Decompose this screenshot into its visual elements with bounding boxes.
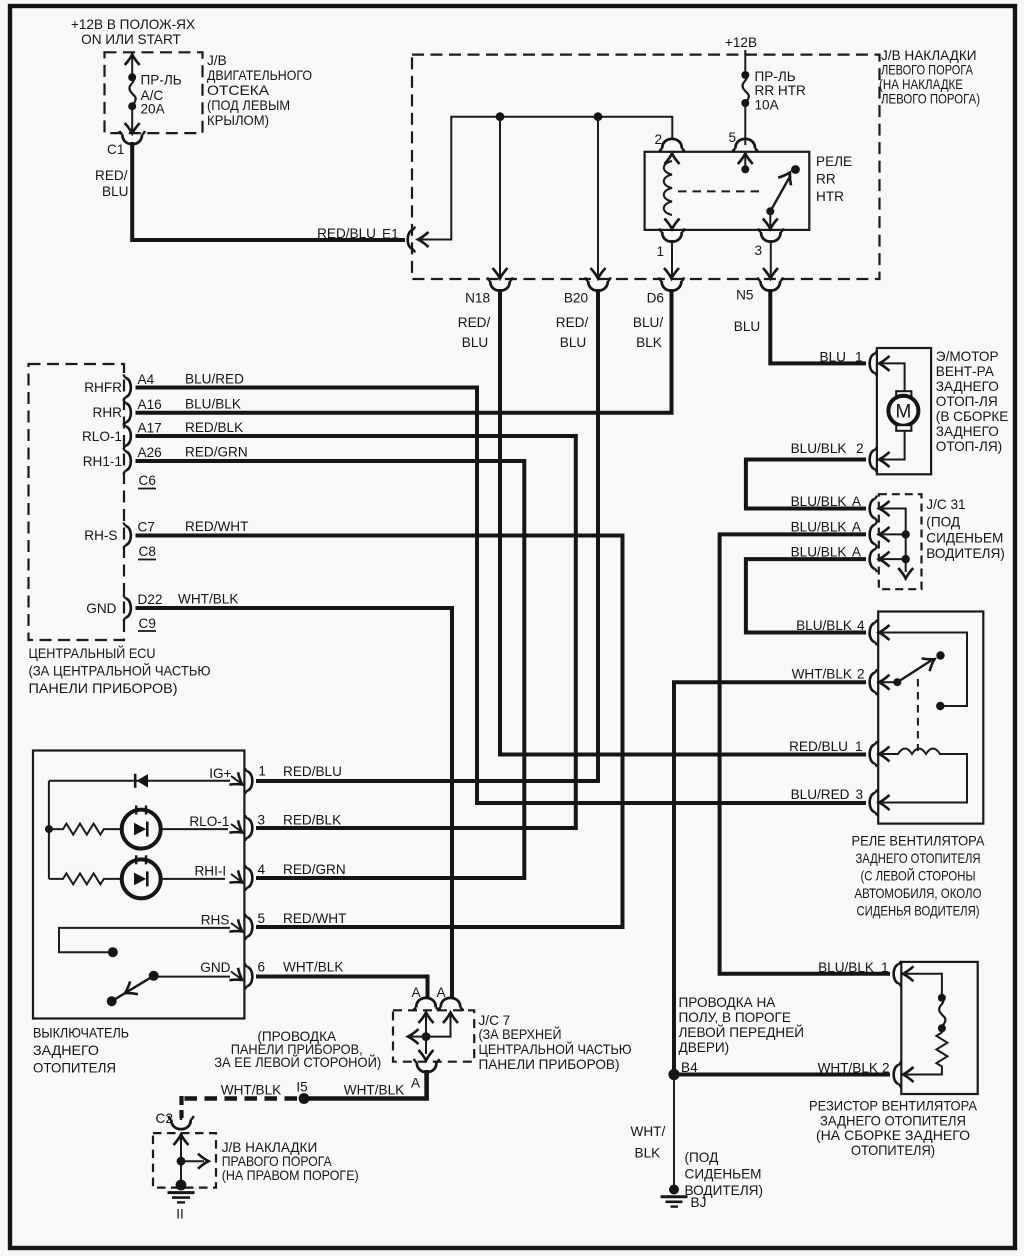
switch pin 5 connector xyxy=(245,911,265,940)
svg-text:(ЗА ВЕРХНЕЙ: (ЗА ВЕРХНЕЙ xyxy=(479,1027,562,1042)
bulb RLO-1 xyxy=(122,806,228,849)
dashed wire I5 to C2 xyxy=(182,1096,298,1118)
svg-text:(НА ПРАВОМ ПОРОГЕ): (НА ПРАВОМ ПОРОГЕ) xyxy=(222,1168,359,1183)
svg-text:ON ИЛИ START: ON ИЛИ START xyxy=(81,32,181,47)
fan relay coil xyxy=(880,749,967,803)
svg-text:RHI-I: RHI-I xyxy=(194,864,226,879)
resistor element xyxy=(904,974,947,1075)
wire +12V to fuse xyxy=(744,50,746,75)
svg-text:WHT/BLK: WHT/BLK xyxy=(283,960,343,975)
svg-text:+12В: +12В xyxy=(725,35,757,50)
svg-text:(НА СБОРКЕ ЗАДНЕГО: (НА СБОРКЕ ЗАДНЕГО xyxy=(816,1128,970,1143)
relay switch common from pin 5 xyxy=(738,154,753,174)
fuse PR-L A/C 20A xyxy=(128,73,182,117)
svg-text:2: 2 xyxy=(654,132,662,147)
svg-text:(НА НАКЛАДКЕ: (НА НАКЛАДКЕ xyxy=(879,77,963,92)
svg-text:ЛЕВОЙ ПЕРЕДНЕЙ: ЛЕВОЙ ПЕРЕДНЕЙ xyxy=(679,1025,805,1040)
svg-text:ПАНЕЛИ ПРИБОРОВ): ПАНЕЛИ ПРИБОРОВ) xyxy=(29,681,178,696)
rear heater fan resistor box xyxy=(901,962,977,1094)
pin RLO-1 A17 xyxy=(82,421,162,450)
svg-text:J/C 31: J/C 31 xyxy=(926,497,965,512)
fan relay pin 3 connector xyxy=(791,787,890,816)
svg-text:4: 4 xyxy=(258,862,266,877)
svg-text:BJ: BJ xyxy=(691,1195,707,1210)
svg-text:J/B: J/B xyxy=(207,53,227,68)
fan relay switch contact from pin 4 xyxy=(880,633,967,711)
switch pin GND label and arrow xyxy=(200,960,246,986)
svg-text:4: 4 xyxy=(857,618,865,633)
svg-text:WHT/BLK: WHT/BLK xyxy=(818,1061,878,1076)
central ECU label xyxy=(29,646,211,696)
svg-text:RLO-1: RLO-1 xyxy=(82,429,122,444)
relay coil xyxy=(664,154,680,230)
relay switch blade xyxy=(763,165,800,229)
svg-text:A: A xyxy=(436,985,446,1000)
resistor pin 2 connector xyxy=(818,1061,914,1088)
svg-text:ПР-ЛЬ: ПР-ЛЬ xyxy=(755,69,796,84)
svg-text:3: 3 xyxy=(856,787,864,802)
svg-text:I5: I5 xyxy=(296,1080,307,1095)
svg-text:ОТОП-ЛЯ: ОТОП-ЛЯ xyxy=(936,394,998,409)
svg-text:ДВЕРИ): ДВЕРИ) xyxy=(679,1040,730,1055)
svg-text:(С ЛЕВОЙ СТОРОНЫ: (С ЛЕВОЙ СТОРОНЫ xyxy=(861,869,976,884)
svg-text:СИДЕНЬЯ ВОДИТЕЛЯ): СИДЕНЬЯ ВОДИТЕЛЯ) xyxy=(857,904,980,919)
svg-text:(ЗА ЦЕНТРАЛЬНОЙ ЧАСТЬЮ: (ЗА ЦЕНТРАЛЬНОЙ ЧАСТЬЮ xyxy=(29,664,211,679)
svg-text:RED/BLK: RED/BLK xyxy=(283,813,341,828)
wire N18 RED/BLU to fan relay pin 1 xyxy=(500,289,866,755)
svg-text:ЗАДНЕГО: ЗАДНЕГО xyxy=(936,424,999,439)
svg-text:WHT/BLK: WHT/BLK xyxy=(221,1083,281,1098)
svg-text:BLU/RED: BLU/RED xyxy=(185,372,244,387)
svg-text:RED/BLU: RED/BLU xyxy=(317,226,376,241)
J/C 31 dashed box xyxy=(879,494,922,589)
svg-text:WHT/BLK: WHT/BLK xyxy=(344,1083,404,1098)
pin RHR A16 xyxy=(93,397,162,426)
svg-text:ЛЕВОГО ПОРОГА): ЛЕВОГО ПОРОГА) xyxy=(881,92,980,107)
svg-text:GND: GND xyxy=(200,960,230,975)
svg-text:1: 1 xyxy=(855,350,863,365)
svg-text:2: 2 xyxy=(856,441,864,456)
svg-text:ОТОПИТЕЛЯ: ОТОПИТЕЛЯ xyxy=(33,1061,116,1076)
switch pin 6 connector xyxy=(245,960,265,990)
switch pin IG+ label and arrow xyxy=(209,766,246,791)
svg-text:ОТОП-ЛЯ): ОТОП-ЛЯ) xyxy=(936,439,1002,454)
svg-text:RED/BLU: RED/BLU xyxy=(283,764,342,779)
svg-text:A: A xyxy=(852,494,862,509)
svg-text:ВЕНТ-РА: ВЕНТ-РА xyxy=(936,364,995,379)
svg-text:BLU: BLU xyxy=(102,184,128,199)
ground II xyxy=(168,1193,195,1222)
junction dot B20 branch xyxy=(594,112,603,121)
fan relay switch blade xyxy=(880,651,945,686)
wire A4 BLU/RED to fan relay pin 3 xyxy=(136,388,867,804)
svg-text:5: 5 xyxy=(728,130,736,145)
svg-text:C7: C7 xyxy=(138,520,155,535)
J/C7 right top connector xyxy=(438,998,463,1011)
wire J/C7 to I5 xyxy=(309,1070,427,1099)
svg-text:RH-S: RH-S xyxy=(84,528,117,543)
node A labels at J/C7 top xyxy=(411,985,446,1000)
resistor label xyxy=(809,1099,978,1159)
wire E1 to internal bus xyxy=(419,117,672,240)
svg-text:C9: C9 xyxy=(139,616,156,631)
svg-text:ЦЕНТРАЛЬНОЙ ЧАСТЬЮ: ЦЕНТРАЛЬНОЙ ЧАСТЬЮ xyxy=(479,1042,632,1057)
svg-text:D22: D22 xyxy=(138,592,163,607)
motor pin 2 connector xyxy=(791,441,890,473)
svg-text:RED/: RED/ xyxy=(556,315,589,330)
switch pin RLO-1 label and arrow xyxy=(189,814,246,839)
relay RR HTR label xyxy=(816,154,852,204)
svg-text:M: M xyxy=(895,402,911,423)
connector N18 xyxy=(487,277,512,290)
svg-text:1: 1 xyxy=(881,960,889,975)
svg-text:РЕЛЕ ВЕНТИЛЯТОРА: РЕЛЕ ВЕНТИЛЯТОРА xyxy=(852,834,986,849)
svg-text:HTR: HTR xyxy=(816,189,844,204)
svg-text:ПАНЕЛИ ПРИБОРОВ): ПАНЕЛИ ПРИБОРОВ) xyxy=(479,1057,620,1072)
svg-text:ЛЕВОГО ПОРОГА: ЛЕВОГО ПОРОГА xyxy=(881,63,974,78)
pin 3 connector xyxy=(758,228,783,241)
relay RR HTR box xyxy=(645,152,810,230)
pin GND D22 xyxy=(86,592,162,621)
wire label N18 RED/BLU xyxy=(458,315,491,350)
switch pin 1 connector xyxy=(245,764,266,795)
svg-text:J/B НАКЛАДКИ: J/B НАКЛАДКИ xyxy=(881,48,977,63)
svg-text:RED/: RED/ xyxy=(458,315,491,330)
svg-text:ПОЛУ, В ПОРОГЕ: ПОЛУ, В ПОРОГЕ xyxy=(679,1010,791,1025)
switch blade GND row xyxy=(107,971,230,1006)
svg-text:A: A xyxy=(411,985,421,1000)
svg-text:RHFR: RHFR xyxy=(84,380,122,395)
svg-text:BLU/BLK: BLU/BLK xyxy=(818,960,874,975)
switch pin RHI-I label and arrow xyxy=(194,864,246,889)
wire fan relay pin 2 WHT/BLK to B4 xyxy=(674,682,866,1074)
svg-text:ЗАДНЕГО ОТОПИТЕЛЯ: ЗАДНЕГО ОТОПИТЕЛЯ xyxy=(820,1114,966,1129)
svg-text:10А: 10А xyxy=(755,98,780,113)
svg-text:ЗАДНЕГО: ЗАДНЕГО xyxy=(33,1043,99,1058)
motor label xyxy=(936,349,1009,454)
svg-text:RHR: RHR xyxy=(93,405,123,420)
svg-text:C6: C6 xyxy=(139,473,156,488)
connector E1 cup xyxy=(408,227,415,253)
wire switch GND WHT/BLK to J/C7 xyxy=(256,977,428,999)
wire D22 WHT/BLK to J/C7 xyxy=(136,608,453,998)
J/C31 pin A middle connector xyxy=(791,520,890,548)
svg-text:(ПОД ЛЕВЫМ: (ПОД ЛЕВЫМ xyxy=(207,98,290,113)
wire B20 RED/BLU to heater switch pin 1 xyxy=(256,289,598,781)
J/C7 internal junction xyxy=(408,1013,458,1061)
fuse PR-L RR HTR 10A xyxy=(741,69,806,113)
wire J/C31 bottom BLU/BLK to fan relay pin 4 xyxy=(746,559,866,632)
svg-text:BLU/BLK: BLU/BLK xyxy=(185,397,241,412)
svg-text:WHT/BLK: WHT/BLK xyxy=(792,667,852,682)
svg-text:(ПОД: (ПОД xyxy=(926,515,960,530)
wire A17 RED/BLK to heater switch pin 3 xyxy=(136,436,576,828)
wire label B20 RED/BLU xyxy=(556,315,589,350)
svg-text:+12В В ПОЛОЖ-ЯХ: +12В В ПОЛОЖ-ЯХ xyxy=(71,17,195,32)
svg-text:6: 6 xyxy=(258,960,266,975)
svg-text:BLU/BLK: BLU/BLK xyxy=(791,441,847,456)
node +12V ON/START label xyxy=(71,17,195,47)
J/B right sill label xyxy=(222,1140,359,1183)
J/B engine compartment label xyxy=(207,53,312,128)
resistor on RHI-I row xyxy=(49,873,122,884)
wire fuse to C1 arrow xyxy=(131,106,133,133)
motor M symbol xyxy=(880,363,918,459)
spare pin C8 xyxy=(138,544,156,560)
svg-text:ЗАДНЕГО: ЗАДНЕГО xyxy=(936,379,999,394)
svg-text:BLU: BLU xyxy=(560,335,586,350)
wire motor pin 2 BLU/BLK to J/C31 xyxy=(746,460,866,509)
rear heater switch label xyxy=(33,1026,129,1076)
svg-text:WHT/: WHT/ xyxy=(631,1124,666,1139)
J/C 7 dashed box xyxy=(393,1010,474,1061)
svg-text:E1: E1 xyxy=(382,227,399,242)
svg-text:BLU/BLK: BLU/BLK xyxy=(796,618,852,633)
resistor on RLO-1 row xyxy=(49,824,122,835)
wire RED/BLU C1 to E1 xyxy=(132,142,405,240)
svg-text:C8: C8 xyxy=(139,544,156,559)
svg-text:ПРАВОГО ПОРОГА: ПРАВОГО ПОРОГА xyxy=(222,1154,333,1169)
wire label D6 BLU/BLK xyxy=(633,315,663,350)
svg-text:A: A xyxy=(411,1076,421,1091)
connector B20 xyxy=(585,277,610,290)
svg-text:RED/: RED/ xyxy=(95,168,128,183)
switch internal left bus xyxy=(45,781,53,879)
svg-text:(В СБОРКЕ: (В СБОРКЕ xyxy=(936,409,1009,424)
connector D6 xyxy=(659,277,684,290)
switch wiper RHS row xyxy=(59,928,230,957)
wire A26 RED/GRN to heater switch pin 4 xyxy=(136,461,525,878)
pin 1 connector xyxy=(659,228,684,241)
svg-text:РЕЛЕ: РЕЛЕ xyxy=(816,154,852,169)
svg-text:2: 2 xyxy=(882,1061,890,1076)
svg-text:RR HTR: RR HTR xyxy=(755,83,807,98)
svg-text:5: 5 xyxy=(258,911,266,926)
spare pin C9 xyxy=(138,616,156,631)
junction B4 xyxy=(668,1060,698,1080)
svg-text:B20: B20 xyxy=(564,291,589,306)
svg-text:АВТОМОБИЛЯ, ОКОЛО: АВТОМОБИЛЯ, ОКОЛО xyxy=(855,886,982,901)
J/C31 internal bus xyxy=(880,509,913,579)
svg-text:ЗАДНЕГО ОТОПИТЕЛЯ: ЗАДНЕГО ОТОПИТЕЛЯ xyxy=(856,851,981,866)
svg-text:A16: A16 xyxy=(138,397,162,412)
junction dot N18 branch xyxy=(496,112,505,121)
svg-text:RED/WHT: RED/WHT xyxy=(185,519,248,534)
svg-text:BLU: BLU xyxy=(462,335,488,350)
wire N5 BLU to motor pin 1 xyxy=(770,289,866,363)
svg-text:ПРОВОДКА НА: ПРОВОДКА НА xyxy=(679,995,777,1010)
pin RHFR A4 xyxy=(84,372,154,401)
junction I5 xyxy=(296,1080,309,1104)
wire pin 3 to N5 xyxy=(770,240,772,277)
svg-text:A4: A4 xyxy=(138,372,155,387)
svg-text:RED/GRN: RED/GRN xyxy=(185,445,248,460)
floor wiring note xyxy=(679,995,805,1055)
svg-text:A: A xyxy=(852,520,862,535)
pin 2 connector xyxy=(659,139,684,152)
J/C31 pin A top connector xyxy=(791,494,890,522)
svg-text:2: 2 xyxy=(857,667,865,682)
svg-text:II: II xyxy=(176,1207,184,1222)
wire B4 to resistor pin 2 xyxy=(674,1073,890,1077)
svg-text:BLK: BLK xyxy=(636,335,662,350)
svg-text:BLU/BLK: BLU/BLK xyxy=(791,520,847,535)
connector C2 xyxy=(156,1111,194,1129)
wire from +12V into fuse xyxy=(131,55,133,77)
diode on IG+ row xyxy=(49,774,230,788)
svg-text:ОТОПИТЕЛЯ): ОТОПИТЕЛЯ) xyxy=(851,1143,935,1158)
svg-text:1: 1 xyxy=(855,739,863,754)
pin 5 connector xyxy=(733,139,758,152)
J/C31 pin A bottom connector xyxy=(791,545,890,573)
svg-text:ЦЕНТРАЛЬНЫЙ ECU: ЦЕНТРАЛЬНЫЙ ECU xyxy=(29,646,156,661)
svg-text:BLU/: BLU/ xyxy=(633,315,663,330)
J/C7 left top connector xyxy=(413,998,438,1011)
wire pin 1 to D6 xyxy=(671,240,673,277)
wire B4 down to ground BJ xyxy=(673,1076,675,1186)
pin RH-S C7 xyxy=(84,520,155,549)
switch pin 4 connector xyxy=(245,862,266,891)
svg-text:BLU: BLU xyxy=(734,319,760,334)
svg-text:(ПОД: (ПОД xyxy=(685,1150,719,1165)
svg-text:J/B НАКЛАДКИ: J/B НАКЛАДКИ xyxy=(222,1140,318,1155)
svg-text:ЗА ЕЕ ЛЕВОЙ СТОРОНОЙ): ЗА ЕЕ ЛЕВОЙ СТОРОНОЙ) xyxy=(214,1055,381,1070)
svg-text:A17: A17 xyxy=(138,421,162,436)
wire fuse to relay pin 5 xyxy=(744,103,746,145)
J/B left sill label xyxy=(879,48,980,107)
svg-text:BLU/BLK: BLU/BLK xyxy=(791,494,847,509)
wire down to B20 xyxy=(597,117,599,277)
svg-text:RED/GRN: RED/GRN xyxy=(283,862,346,877)
svg-text:3: 3 xyxy=(258,813,266,828)
dashboard wiring note xyxy=(214,1029,381,1070)
J/B engine compartment dashed box xyxy=(105,52,203,133)
spare pin C6 xyxy=(138,473,156,489)
svg-text:WHT/BLK: WHT/BLK xyxy=(178,592,238,607)
svg-text:RR: RR xyxy=(816,172,836,187)
svg-text:IG+: IG+ xyxy=(209,766,231,781)
svg-text:GND: GND xyxy=(86,601,116,616)
J/C 7 label xyxy=(479,1013,632,1072)
svg-text:N18: N18 xyxy=(465,291,490,306)
svg-text:J/C 7: J/C 7 xyxy=(479,1013,511,1028)
under driver seat note xyxy=(685,1150,764,1198)
svg-text:КРЫЛОМ): КРЫЛОМ) xyxy=(207,113,269,128)
svg-text:BLU: BLU xyxy=(820,350,846,365)
svg-text:C1: C1 xyxy=(107,142,124,157)
svg-text:RED/BLU: RED/BLU xyxy=(789,739,848,754)
rear heater switch box xyxy=(33,751,244,1019)
rear heater fan relay box xyxy=(878,612,983,824)
central ECU dashed box xyxy=(29,364,125,640)
J/C7 bottom connector xyxy=(414,1059,439,1072)
wire C7 RED/WHT to heater switch pin 5 xyxy=(136,536,623,928)
J/B left sill dashed box xyxy=(412,55,880,279)
svg-text:ВЫКЛЮЧАТЕЛЬ: ВЫКЛЮЧАТЕЛЬ xyxy=(33,1026,129,1041)
svg-text:RH1-1: RH1-1 xyxy=(83,454,122,469)
switch pin RHS label and arrow xyxy=(201,913,247,938)
svg-text:20А: 20А xyxy=(141,102,166,117)
svg-text:RED/WHT: RED/WHT xyxy=(283,911,346,926)
svg-text:RLO-1: RLO-1 xyxy=(189,814,229,829)
svg-text:BLU/RED: BLU/RED xyxy=(791,787,850,802)
rear heater motor box xyxy=(877,348,931,474)
J/B right sill dashed box xyxy=(153,1133,216,1188)
fan relay pin 1 connector xyxy=(789,739,889,767)
connector C1 xyxy=(120,131,145,144)
fan relay armature dashed link xyxy=(917,679,919,751)
svg-text:Э/МОТОР: Э/МОТОР xyxy=(936,349,999,364)
J/B right sill internal xyxy=(174,1135,209,1191)
arrow into E1 xyxy=(418,232,429,247)
wire down to N18 xyxy=(499,117,501,277)
svg-text:RHS: RHS xyxy=(201,913,230,928)
fan relay label xyxy=(852,834,986,919)
motor pin 1 connector xyxy=(820,350,890,377)
relay armature dashed link xyxy=(678,190,764,192)
wire J/C31 middle BLU/BLK to resistor pin 1 xyxy=(720,534,890,973)
svg-text:BLK: BLK xyxy=(635,1146,661,1161)
svg-text:ДВИГАТЕЛЬНОГО: ДВИГАТЕЛЬНОГО xyxy=(207,68,312,83)
svg-text:РЕЗИСТОР ВЕНТИЛЯТОРА: РЕЗИСТОР ВЕНТИЛЯТОРА xyxy=(809,1099,978,1114)
switch pin 3 connector xyxy=(245,813,265,842)
svg-text:3: 3 xyxy=(754,243,762,258)
pin RH1-1 A26 xyxy=(83,445,162,474)
svg-text:ОТСЕКА: ОТСЕКА xyxy=(207,83,270,98)
J/C 31 label xyxy=(926,497,1005,561)
resistor pin 1 connector xyxy=(818,960,913,987)
svg-text:D6: D6 xyxy=(647,291,664,306)
svg-text:ВОДИТЕЛЯ): ВОДИТЕЛЯ) xyxy=(926,546,1005,561)
svg-text:A26: A26 xyxy=(138,445,162,460)
svg-text:ПР-ЛЬ: ПР-ЛЬ xyxy=(141,73,182,88)
bulb RHI-I xyxy=(122,855,225,898)
fan relay pin 4 connector xyxy=(796,618,889,646)
ground BJ xyxy=(661,1185,707,1211)
wire label WHT/BLK vertical xyxy=(631,1124,666,1161)
svg-text:1: 1 xyxy=(258,764,266,779)
svg-text:СИДЕНЬЕМ: СИДЕНЬЕМ xyxy=(926,531,1003,546)
svg-text:RED/BLK: RED/BLK xyxy=(185,420,243,435)
svg-text:N5: N5 xyxy=(736,288,753,303)
connector N5 xyxy=(758,277,783,290)
fan relay pin 2 connector xyxy=(792,667,890,696)
svg-text:СИДЕНЬЕМ: СИДЕНЬЕМ xyxy=(685,1167,762,1182)
svg-text:1: 1 xyxy=(656,244,664,259)
wire D6 BLU/BLK to ECU A16 xyxy=(136,289,672,413)
